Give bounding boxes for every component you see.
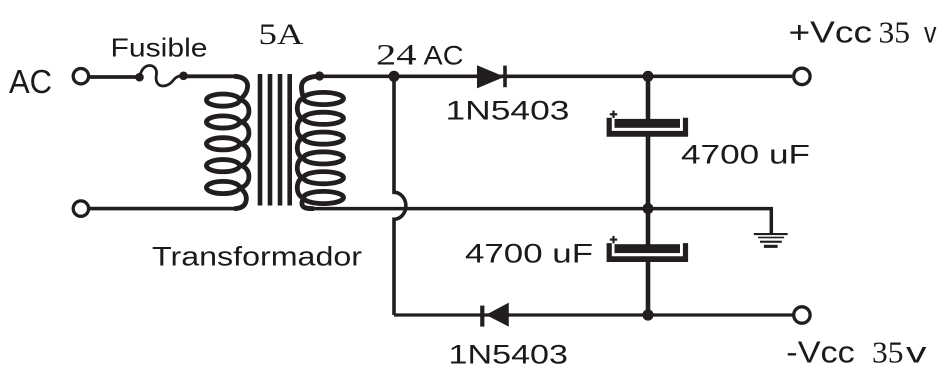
wire top rail	[319, 75, 792, 79]
svg-text:24: 24	[376, 40, 417, 72]
terminal -Vcc	[794, 307, 810, 323]
svg-text:+Vcc: +Vcc	[789, 14, 873, 49]
bottom-left return wire	[90, 207, 238, 211]
transformer T1 core	[260, 74, 290, 206]
transformer T1 primary winding	[206, 76, 249, 208]
wire	[90, 75, 137, 79]
node mid junction	[643, 203, 654, 214]
polarity + C1	[610, 111, 617, 118]
fuse F1	[135, 65, 188, 85]
wire bottom rail	[394, 313, 793, 316]
svg-text:AC: AC	[9, 63, 52, 100]
svg-text:v: v	[906, 336, 927, 369]
wire	[186, 74, 238, 78]
svg-text:1N5403: 1N5403	[446, 96, 570, 126]
polarity + C2	[610, 236, 617, 243]
svg-text:AC: AC	[424, 40, 464, 70]
svg-text:v: v	[924, 16, 937, 49]
svg-text:Fusible: Fusible	[111, 33, 208, 63]
node 24AC junction	[389, 71, 400, 82]
svg-text:35: 35	[872, 335, 904, 369]
svg-text:Transformador: Transformador	[152, 241, 362, 271]
capacitor C1 4700uF	[607, 118, 689, 137]
transformer T1 secondary winding	[297, 76, 343, 208]
node -V junction	[642, 309, 653, 320]
svg-text:5A: 5A	[259, 19, 305, 51]
svg-text:-Vcc: -Vcc	[786, 334, 855, 369]
terminal AC top	[73, 69, 88, 84]
svg-text:1N5403: 1N5403	[449, 339, 569, 369]
diode D2 1N5403	[480, 303, 509, 327]
wire vertical with hop	[394, 76, 406, 315]
wire capacitor column	[646, 76, 651, 315]
terminal +Vcc	[794, 68, 810, 84]
node +V junction	[643, 71, 654, 82]
capacitor C2 4700uF	[607, 243, 689, 262]
svg-text:4700 uF: 4700 uF	[465, 239, 593, 269]
terminal AC bottom	[73, 201, 88, 216]
diode D1 1N5403	[477, 65, 507, 88]
junction secondary top	[315, 71, 324, 80]
svg-text:35: 35	[879, 15, 911, 49]
ground	[754, 233, 788, 248]
wire middle rail	[313, 209, 771, 234]
svg-text:4700 uF: 4700 uF	[681, 140, 810, 170]
